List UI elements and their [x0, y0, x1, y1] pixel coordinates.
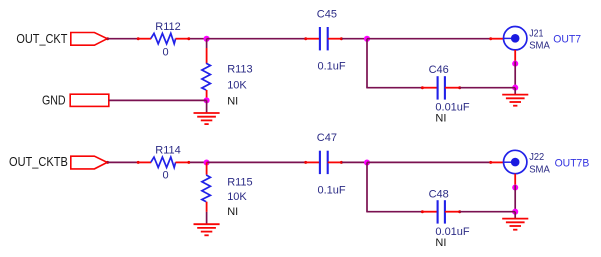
pin-end dot R112 pin2 — [187, 37, 190, 40]
svg-text:0: 0 — [163, 169, 169, 181]
wire flag to R112 — [107, 38, 137, 40]
pin J21 bottom — [514, 50, 516, 62]
svg-text:0: 0 — [163, 47, 169, 59]
resistor R113 — [202, 63, 211, 90]
ground at J21 — [502, 88, 528, 106]
pin-end dot C46 pin2 — [458, 86, 461, 89]
port connector OUT_CKT flag — [71, 33, 107, 46]
wire GND to R113 — [109, 99, 207, 101]
pin-end dot C47 pin2 — [340, 161, 343, 164]
port connector GND — [70, 94, 109, 106]
pin R112 right — [176, 38, 191, 40]
pin-end dot J21 pin1 — [489, 37, 492, 40]
wire junction to C45 — [207, 38, 306, 40]
pin-end dot C45 pin2 — [340, 37, 343, 40]
svg-text:SMA: SMA — [529, 164, 550, 175]
wire flag to R114 — [107, 161, 137, 163]
wire C45 to junction — [342, 38, 367, 40]
svg-text:J21: J21 — [529, 28, 544, 39]
pin C46 left — [422, 87, 437, 89]
svg-text:R114: R114 — [155, 145, 180, 157]
wire C47 to junction — [342, 161, 367, 163]
pin-end dot C47 pin1 — [304, 161, 307, 164]
pin-end dot C46 pin1 — [421, 86, 424, 89]
svg-text:J22: J22 — [529, 152, 544, 163]
pin R115 bottom — [206, 202, 208, 212]
junction dot at J21 ground — [512, 85, 518, 91]
wire C48 to J22 ground junction — [460, 211, 516, 213]
pin C47 right — [328, 161, 342, 163]
pin R115 top — [206, 162, 208, 174]
pin J22 bottom — [514, 174, 516, 186]
pin R113 top wire — [206, 39, 208, 48]
svg-text:NI: NI — [227, 206, 238, 218]
svg-text:C45: C45 — [317, 9, 337, 21]
resistor R114 — [151, 157, 176, 167]
wire junction down to C46 row — [366, 39, 368, 88]
junction dot node after C45 — [364, 36, 370, 42]
svg-text:SMA: SMA — [529, 40, 550, 51]
ground at R115 — [194, 212, 220, 235]
resistor R115 — [202, 175, 211, 202]
wire C46 row left segment — [366, 87, 422, 89]
junction dot node after R112 — [204, 36, 210, 42]
ground at J22 — [502, 212, 528, 230]
wire junction to C47 — [207, 161, 306, 163]
wire R112 to junction — [190, 38, 207, 40]
junction dot at J22 ground — [512, 209, 518, 215]
ground at R113 — [194, 100, 220, 124]
svg-text:C46: C46 — [429, 64, 449, 76]
svg-text:C48: C48 — [429, 189, 449, 201]
pin C45 right — [328, 38, 342, 40]
wire C46 to J21 ground junction — [460, 87, 516, 89]
pin-end dot at flag tip — [106, 37, 109, 40]
capacitor C48 — [438, 200, 445, 223]
svg-text:NI: NI — [435, 112, 446, 124]
junction dot node after R114 — [204, 159, 210, 165]
pin-end dot R114 pin1 — [137, 161, 140, 164]
svg-text:OUT_CKT: OUT_CKT — [16, 31, 67, 46]
wire J21 to ground junction — [514, 61, 516, 87]
pin-end dot R112 pin1 — [137, 37, 140, 40]
svg-text:0.1uF: 0.1uF — [318, 184, 346, 196]
svg-text:OUT7: OUT7 — [553, 34, 581, 46]
capacitor C46 — [438, 76, 445, 99]
junction dot below J21 — [512, 61, 518, 67]
pin C47 left — [305, 161, 319, 163]
pin C48 left — [422, 211, 437, 213]
svg-text:OUT7B: OUT7B — [555, 157, 590, 169]
pin C48 right — [445, 211, 460, 213]
pin R113 bottom — [206, 90, 208, 100]
pin R112 left — [137, 38, 151, 40]
junction dot node after C47 — [364, 159, 370, 165]
pin R113 top — [206, 48, 208, 64]
pin-end dot C45 pin1 — [304, 37, 307, 40]
pin C46 right — [445, 87, 460, 89]
wire R114 to junction — [190, 161, 207, 163]
wire J22 to ground junction — [514, 185, 516, 212]
SMA connector J21 — [504, 27, 527, 50]
pin J21 left — [490, 38, 504, 40]
wire junction to J22 — [367, 161, 490, 163]
pin-end dot R114 pin2 — [187, 161, 190, 164]
svg-text:C47: C47 — [317, 132, 337, 144]
capacitor C47 — [320, 151, 328, 174]
pin-end dot C48 pin1 — [421, 210, 424, 213]
svg-text:NI: NI — [227, 96, 238, 108]
svg-text:OUT_CKTB: OUT_CKTB — [9, 154, 68, 169]
pin R114 left — [137, 161, 151, 163]
svg-text:0.1uF: 0.1uF — [318, 61, 346, 73]
port connector OUT_CKTB flag — [71, 156, 107, 169]
wire junction to J21 — [367, 38, 490, 40]
svg-text:10K: 10K — [227, 80, 247, 92]
pin R114 right — [176, 161, 191, 163]
pin J22 left — [490, 161, 504, 163]
svg-text:R115: R115 — [227, 177, 252, 189]
junction dot R113 to GND wire — [204, 97, 210, 103]
wire junction down to C48 row — [366, 162, 368, 211]
capacitor C45 — [320, 27, 328, 50]
pin C45 left — [305, 38, 319, 40]
wire C48 row left segment — [366, 211, 422, 213]
svg-text:R112: R112 — [155, 21, 180, 33]
SMA connector J22 — [504, 150, 527, 173]
pin-end dot C48 pin2 — [458, 210, 461, 213]
pin-end dot J22 pin1 — [489, 161, 492, 164]
svg-text:R113: R113 — [227, 64, 252, 76]
svg-text:GND: GND — [42, 92, 66, 107]
pin-end dot at flag tip B — [106, 161, 109, 164]
svg-text:NI: NI — [435, 237, 446, 249]
svg-text:10K: 10K — [227, 191, 247, 203]
resistor R112 — [151, 33, 176, 43]
junction dot below J22 — [512, 184, 518, 190]
